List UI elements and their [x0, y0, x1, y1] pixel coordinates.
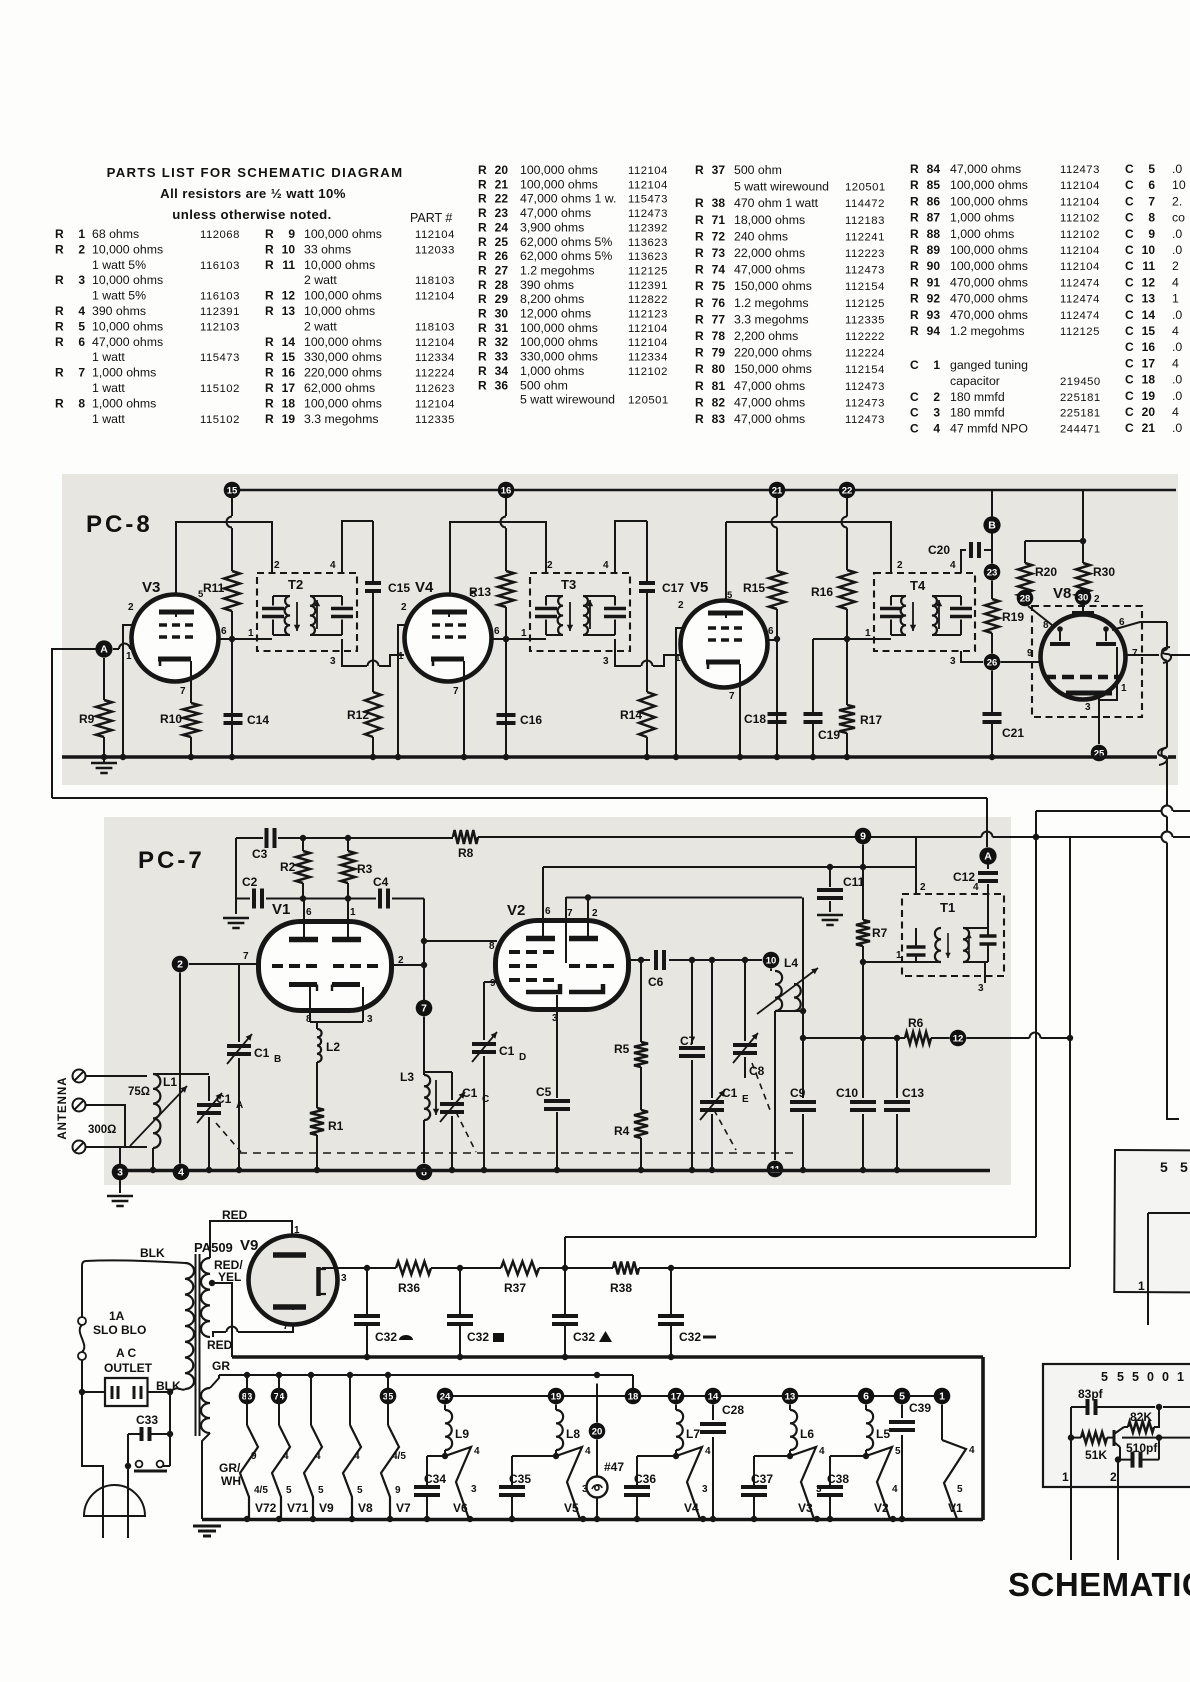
- svg-text:R: R: [55, 396, 64, 410]
- heater V7 with node 35: [380, 1375, 411, 1519]
- svg-text:4: 4: [1172, 275, 1179, 289]
- resistor R17: [839, 639, 882, 757]
- svg-text:112474: 112474: [1060, 294, 1100, 306]
- capacitor C16: [497, 713, 543, 727]
- svg-text:A: A: [100, 643, 108, 655]
- svg-text:3: 3: [933, 406, 940, 420]
- svg-text:80: 80: [712, 362, 726, 376]
- svg-text:4: 4: [1172, 405, 1179, 419]
- svg-text:C: C: [1125, 275, 1134, 289]
- svg-text:3: 3: [471, 1484, 477, 1495]
- svg-text:R3: R3: [357, 862, 373, 876]
- wire V3 plate to T2 pin2: [176, 522, 272, 612]
- svg-text:R10: R10: [160, 712, 182, 726]
- svg-text:4: 4: [969, 1445, 975, 1456]
- resistor R2: [280, 838, 310, 899]
- svg-text:1 watt: 1 watt: [92, 381, 125, 395]
- svg-text:112102: 112102: [628, 366, 668, 378]
- svg-text:10: 10: [766, 955, 777, 966]
- svg-text:2: 2: [933, 390, 940, 404]
- svg-text:6: 6: [863, 1390, 869, 1402]
- capacitor C4: [373, 875, 389, 909]
- wire screen feed y867: [543, 864, 916, 870]
- svg-text:R5: R5: [614, 1042, 630, 1056]
- svg-text:4/5: 4/5: [254, 1485, 268, 1496]
- svg-text:112125: 112125: [845, 298, 885, 310]
- svg-text:C32: C32: [679, 1330, 701, 1344]
- wire V4 plate to T3 pin2: [450, 522, 546, 612]
- svg-text:5: 5: [1101, 1370, 1108, 1384]
- svg-text:C28: C28: [722, 1403, 744, 1417]
- svg-text:112473: 112473: [628, 208, 668, 220]
- svg-text:R: R: [695, 296, 704, 310]
- wire R13 to C16: [503, 607, 509, 757]
- svg-text:R17: R17: [860, 713, 882, 727]
- node 16: [498, 482, 515, 499]
- svg-text:112473: 112473: [845, 397, 885, 409]
- ground symbol PC-8 left: [91, 749, 117, 773]
- svg-text:112123: 112123: [628, 309, 668, 321]
- svg-text:20: 20: [1142, 405, 1156, 419]
- svg-text:30: 30: [1078, 592, 1089, 603]
- resistor R36: [396, 1262, 431, 1296]
- svg-text:47,000 ohms: 47,000 ohms: [734, 263, 805, 277]
- tube V4: [398, 579, 500, 697]
- wire R7 to T1 pin1: [863, 961, 912, 963]
- svg-text:R: R: [695, 395, 704, 409]
- svg-text:R: R: [910, 194, 919, 208]
- svg-text:112241: 112241: [845, 231, 885, 243]
- power transformer heater secondary: [201, 1388, 210, 1433]
- svg-text:16: 16: [282, 366, 296, 380]
- svg-text:RED: RED: [207, 1338, 233, 1352]
- svg-text:V1: V1: [272, 901, 290, 918]
- node 3: [112, 1164, 129, 1181]
- wire V3 pin7: [190, 682, 192, 703]
- svg-text:112154: 112154: [845, 281, 885, 293]
- svg-text:37: 37: [712, 163, 726, 177]
- capacitor C11: [817, 867, 865, 925]
- svg-text:112473: 112473: [845, 265, 885, 277]
- resistor R20: [1018, 541, 1083, 597]
- svg-text:1.2 megohms: 1.2 megohms: [520, 263, 595, 277]
- svg-text:3.3 megohms: 3.3 megohms: [304, 412, 379, 426]
- svg-text:112335: 112335: [845, 314, 885, 326]
- svg-text:WH: WH: [221, 1474, 241, 1488]
- wire R20 to V8 plate: [1028, 606, 1052, 625]
- svg-text:R: R: [695, 246, 704, 260]
- PC-7 circuit board panel: [104, 817, 1011, 1185]
- svg-text:7: 7: [567, 908, 573, 919]
- svg-text:T1: T1: [940, 900, 955, 915]
- svg-text:1: 1: [865, 628, 871, 639]
- svg-text:244471: 244471: [1060, 424, 1101, 436]
- svg-text:18: 18: [282, 396, 296, 410]
- tube V5: [675, 579, 774, 702]
- wire heater link line: [453, 1395, 934, 1397]
- svg-text:26: 26: [987, 657, 998, 668]
- svg-text:C1: C1: [499, 1044, 515, 1058]
- svg-text:C: C: [1125, 243, 1134, 257]
- svg-text:C37: C37: [751, 1472, 773, 1486]
- svg-text:R: R: [478, 307, 487, 321]
- wire BLK top: [82, 1246, 185, 1318]
- svg-text:R4: R4: [614, 1124, 630, 1138]
- svg-text:C1: C1: [254, 1046, 270, 1060]
- heater V9: [304, 1375, 334, 1519]
- wire center tap to bus: [212, 1283, 232, 1357]
- svg-text:SCHEMATIC: SCHEMATIC: [1008, 1566, 1190, 1603]
- svg-text:V72: V72: [255, 1501, 277, 1515]
- svg-text:6: 6: [545, 906, 551, 917]
- resistor R19: [985, 599, 1024, 633]
- svg-text:22,000 ohms: 22,000 ohms: [734, 246, 805, 260]
- wire feedback line y811: [1036, 806, 1190, 812]
- antenna label: [57, 1076, 69, 1139]
- svg-text:13: 13: [785, 1391, 796, 1402]
- svg-text:C17: C17: [662, 581, 684, 595]
- wire R36 R37: [431, 1265, 501, 1271]
- svg-text:1: 1: [248, 628, 254, 639]
- svg-text:T3: T3: [561, 577, 576, 592]
- capacitor C1E variable: [700, 960, 749, 1170]
- wire C2 row: [236, 838, 424, 902]
- svg-text:16: 16: [501, 485, 512, 496]
- svg-text:2: 2: [920, 882, 926, 893]
- svg-text:9: 9: [251, 1451, 257, 1462]
- resistor R37: [501, 1262, 539, 1296]
- node 8: [416, 1164, 433, 1181]
- resistor R6: [803, 1016, 950, 1044]
- svg-text:17: 17: [671, 1391, 682, 1402]
- gang coupling dashed line: [216, 1063, 793, 1153]
- svg-text:V1: V1: [948, 1501, 963, 1515]
- svg-text:R30: R30: [1093, 565, 1115, 579]
- wire R37 junction riser: [564, 1237, 566, 1268]
- svg-text:112391: 112391: [628, 280, 668, 292]
- wire V2 pin3 column: [556, 1009, 558, 1170]
- svg-text:6: 6: [1148, 178, 1155, 192]
- inductor L2: [317, 1022, 340, 1062]
- svg-text:4: 4: [330, 560, 336, 571]
- ground rail PC-7: [120, 1167, 990, 1173]
- capacitor C17: [639, 581, 684, 595]
- PC-8 circuit board panel: [62, 474, 1178, 785]
- wire RED cathode return: [207, 1310, 293, 1352]
- svg-text:75: 75: [712, 279, 726, 293]
- AC outlet box: [105, 1378, 148, 1406]
- svg-text:16: 16: [1142, 340, 1156, 354]
- svg-text:100,000 ohms: 100,000 ohms: [520, 321, 598, 335]
- capacitor C19: [804, 639, 841, 757]
- svg-text:6: 6: [78, 335, 85, 349]
- svg-text:2,200 ohms: 2,200 ohms: [734, 329, 798, 343]
- svg-text:1 watt: 1 watt: [92, 412, 125, 426]
- svg-text:62,000 ohms 5%: 62,000 ohms 5%: [520, 235, 612, 249]
- svg-text:24: 24: [440, 1391, 451, 1402]
- svg-text:C13: C13: [902, 1086, 924, 1100]
- wire node15 stem: [227, 498, 232, 571]
- svg-text:23: 23: [987, 567, 998, 578]
- svg-text:R: R: [695, 312, 704, 326]
- svg-text:0: 0: [1162, 1370, 1169, 1384]
- svg-text:112125: 112125: [1060, 326, 1100, 338]
- svg-text:R: R: [478, 235, 487, 249]
- heater V71 with node 74: [271, 1375, 309, 1519]
- wire node26 to V8 pin9: [1001, 661, 1042, 663]
- svg-text:10,000 ohms: 10,000 ohms: [92, 273, 163, 287]
- svg-text:112104: 112104: [415, 291, 455, 303]
- wire node2 to V1 grid: [189, 963, 258, 965]
- svg-text:5: 5: [895, 1446, 901, 1457]
- svg-text:4: 4: [354, 1451, 360, 1462]
- transformer T4: [865, 560, 975, 667]
- svg-text:R2: R2: [280, 860, 296, 874]
- wire RED plate lead: [210, 1208, 300, 1258]
- svg-text:R: R: [478, 263, 487, 277]
- svg-text:47 mmfd NPO: 47 mmfd NPO: [950, 422, 1028, 436]
- svg-text:C32: C32: [573, 1330, 595, 1344]
- svg-text:300Ω: 300Ω: [88, 1124, 116, 1136]
- svg-text:71: 71: [712, 213, 726, 227]
- svg-text:R: R: [695, 196, 704, 210]
- svg-text:2 watt: 2 watt: [304, 319, 337, 333]
- svg-text:R: R: [265, 227, 274, 241]
- svg-text:R: R: [478, 364, 487, 378]
- svg-text:112033: 112033: [415, 244, 455, 256]
- svg-text:C9: C9: [790, 1086, 806, 1100]
- svg-text:20: 20: [495, 163, 509, 177]
- svg-text:1: 1: [1138, 1279, 1145, 1293]
- wire T1 pin2 riser: [915, 837, 917, 894]
- svg-text:115473: 115473: [628, 194, 668, 206]
- wire outlet left drop: [82, 1392, 103, 1538]
- wire R11 to C14: [229, 611, 235, 757]
- svg-text:GR: GR: [212, 1359, 230, 1373]
- svg-text:180 mmfd: 180 mmfd: [950, 406, 1005, 420]
- svg-text:9: 9: [395, 1485, 401, 1496]
- wire V2 pin7 row: [566, 894, 802, 900]
- wire L1 bottom to rail: [152, 1148, 154, 1170]
- node 11: [767, 1161, 784, 1178]
- svg-text:C: C: [1125, 373, 1134, 387]
- module 555001 lower box: [1043, 1364, 1190, 1487]
- resistor R30: [1076, 490, 1115, 597]
- svg-text:112102: 112102: [1060, 229, 1100, 241]
- wire V8 pin1 loop: [1099, 647, 1117, 700]
- svg-text:114472: 114472: [845, 198, 885, 210]
- ground rail dots: [244, 1516, 905, 1522]
- svg-text:1.2 megohms: 1.2 megohms: [950, 324, 1025, 338]
- svg-text:C: C: [910, 422, 919, 436]
- svg-text:1.2 megohms: 1.2 megohms: [734, 296, 809, 310]
- svg-text:11: 11: [282, 258, 295, 272]
- svg-text:15: 15: [282, 350, 296, 364]
- module output wire 2: [1122, 1434, 1190, 1440]
- module pin 2 lead: [1110, 1460, 1118, 1560]
- wire node A to V3 pin1: [113, 644, 134, 650]
- wire plate feed y1237: [565, 1236, 1036, 1238]
- svg-text:87: 87: [927, 211, 941, 225]
- svg-text:R: R: [55, 319, 64, 333]
- wire chain output riser x1070: [1067, 837, 1073, 1267]
- svg-text:116103: 116103: [200, 260, 240, 272]
- svg-text:C: C: [1125, 178, 1134, 192]
- svg-text:6: 6: [221, 626, 227, 637]
- svg-text:A: A: [984, 850, 992, 862]
- resistor R12: [347, 692, 381, 757]
- antenna terminal 1: [73, 1070, 86, 1083]
- svg-text:V9: V9: [319, 1501, 334, 1515]
- antenna terminal 2: [73, 1099, 86, 1112]
- svg-text:112104: 112104: [628, 323, 668, 335]
- svg-text:51K: 51K: [1085, 1448, 1107, 1462]
- svg-text:.0: .0: [1172, 421, 1182, 435]
- svg-text:R8: R8: [458, 846, 474, 860]
- svg-text:11: 11: [1142, 259, 1155, 273]
- svg-text:72: 72: [712, 229, 726, 243]
- svg-text:1 watt 5%: 1 watt 5%: [92, 258, 146, 272]
- svg-text:330,000 ohms: 330,000 ohms: [304, 350, 382, 364]
- svg-text:113623: 113623: [628, 251, 668, 263]
- svg-text:390 ohms: 390 ohms: [92, 304, 146, 318]
- wire V2 pin9 row: [484, 981, 497, 983]
- svg-text:E: E: [742, 1094, 749, 1105]
- svg-text:1: 1: [1062, 1470, 1069, 1484]
- module resistor 82K: [1124, 1407, 1159, 1433]
- svg-text:8,200 ohms: 8,200 ohms: [520, 292, 584, 306]
- svg-text:L1: L1: [163, 1075, 177, 1089]
- resistor R9: [79, 658, 112, 757]
- heater box right border: [981, 1357, 985, 1520]
- capacitor C3: [252, 828, 275, 861]
- svg-text:R37: R37: [504, 1281, 526, 1295]
- node 9: [855, 828, 872, 845]
- svg-text:112103: 112103: [200, 321, 240, 333]
- svg-text:8: 8: [1148, 211, 1155, 225]
- svg-text:3: 3: [78, 273, 85, 287]
- svg-text:112473: 112473: [845, 414, 885, 426]
- node 15: [224, 482, 241, 499]
- SCHEMATIC title: [1008, 1566, 1190, 1603]
- svg-text:47,000 ohms: 47,000 ohms: [950, 162, 1021, 176]
- resistor R11: [203, 571, 240, 611]
- svg-text:10,000 ohms: 10,000 ohms: [304, 258, 375, 272]
- svg-text:.0: .0: [1172, 340, 1182, 354]
- svg-text:T4: T4: [910, 578, 926, 593]
- wire node9 column: [860, 845, 866, 1171]
- svg-text:C2: C2: [242, 875, 258, 889]
- svg-text:10,000 ohms: 10,000 ohms: [304, 304, 375, 318]
- svg-text:1: 1: [933, 358, 940, 372]
- svg-text:12: 12: [1142, 275, 1156, 289]
- svg-text:100,000 ohms: 100,000 ohms: [304, 227, 382, 241]
- svg-text:93: 93: [927, 308, 941, 322]
- svg-text:28: 28: [495, 278, 509, 292]
- wire A bus drop to PC-7 A: [986, 798, 988, 847]
- svg-text:4: 4: [585, 1446, 591, 1457]
- ground rail PC-8: [62, 748, 1176, 765]
- svg-text:100,000 ohms: 100,000 ohms: [520, 177, 598, 191]
- heater V1: [934, 1388, 975, 1519]
- svg-text:115473: 115473: [200, 352, 240, 364]
- svg-text:4: 4: [1172, 356, 1179, 370]
- svg-text:112104: 112104: [628, 337, 668, 349]
- svg-text:5: 5: [78, 319, 85, 333]
- svg-text:68 ohms: 68 ohms: [92, 227, 139, 241]
- svg-text:C18: C18: [744, 712, 766, 726]
- wire R38 out: [639, 1265, 1070, 1271]
- svg-text:112104: 112104: [1060, 196, 1100, 208]
- svg-text:2: 2: [177, 958, 183, 970]
- svg-text:3: 3: [1085, 702, 1091, 713]
- capacitor C1B variable: [227, 964, 281, 1170]
- capacitor C15: [365, 581, 410, 595]
- svg-text:1: 1: [1177, 1370, 1184, 1384]
- wire A to left edge down: [52, 649, 96, 798]
- svg-text:18: 18: [1142, 373, 1156, 387]
- capacitor C32d: [658, 1268, 716, 1357]
- power transformer HV secondary: [201, 1258, 215, 1337]
- svg-text:10,000 ohms: 10,000 ohms: [92, 242, 163, 256]
- svg-text:112224: 112224: [845, 348, 885, 360]
- svg-text:90: 90: [927, 259, 941, 273]
- svg-text:5: 5: [318, 1485, 324, 1496]
- node 7: [416, 1000, 433, 1017]
- svg-text:115102: 115102: [200, 414, 240, 426]
- resistor R5: [614, 960, 648, 1067]
- svg-text:1,000 ohms: 1,000 ohms: [520, 364, 584, 378]
- svg-text:1,000 ohms: 1,000 ohms: [92, 366, 156, 380]
- svg-text:13: 13: [1142, 292, 1156, 306]
- svg-text:R: R: [695, 163, 704, 177]
- wire BLK junction drop: [167, 1392, 173, 1466]
- tube V9: [240, 1236, 347, 1325]
- svg-text:C: C: [1125, 421, 1134, 435]
- svg-text:2: 2: [1110, 1470, 1117, 1484]
- wire grid bias rail PC-7: [236, 835, 453, 841]
- svg-text:3: 3: [367, 1014, 373, 1025]
- svg-text:7: 7: [1148, 194, 1155, 208]
- svg-text:112104: 112104: [628, 179, 668, 191]
- module pin 1 lead: [1062, 1465, 1071, 1560]
- svg-text:3: 3: [117, 1166, 123, 1178]
- svg-text:C: C: [1125, 211, 1134, 225]
- svg-text:C: C: [910, 406, 919, 420]
- wire node7 column: [423, 899, 425, 1164]
- svg-text:10,000 ohms: 10,000 ohms: [92, 319, 163, 333]
- svg-text:OUTLET: OUTLET: [104, 1361, 153, 1375]
- svg-text:R: R: [478, 220, 487, 234]
- svg-text:47,000 ohms 1 w.: 47,000 ohms 1 w.: [520, 192, 616, 206]
- svg-text:R14: R14: [620, 708, 642, 722]
- svg-text:R: R: [265, 412, 274, 426]
- svg-text:4: 4: [315, 1451, 321, 1462]
- svg-text:118103: 118103: [415, 321, 455, 333]
- svg-text:.0: .0: [1172, 308, 1182, 322]
- capacitor C12: [953, 865, 998, 895]
- svg-text:12: 12: [282, 289, 296, 303]
- svg-text:112334: 112334: [628, 352, 668, 364]
- wire V8 pin6 to right bus: [1112, 622, 1167, 630]
- svg-text:GR/: GR/: [219, 1461, 241, 1475]
- svg-text:R: R: [55, 335, 64, 349]
- svg-text:100,000 ohms: 100,000 ohms: [950, 259, 1028, 273]
- svg-text:R: R: [910, 178, 919, 192]
- svg-text:38: 38: [712, 196, 726, 210]
- heater cell V5: [499, 1388, 591, 1519]
- resistor R7: [856, 920, 888, 946]
